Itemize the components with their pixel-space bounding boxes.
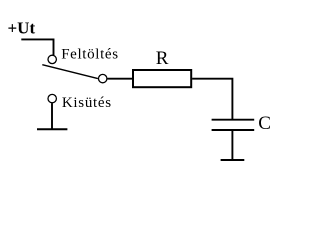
capacitor value label C [258, 113, 271, 134]
svg-text:Feltöltés: Feltöltés [61, 46, 119, 62]
wire from resistor to capacitor top plate [192, 79, 232, 120]
switch contact circle (Feltöltés) [48, 55, 56, 63]
label Feltöltés [61, 46, 119, 62]
wire from +Ut to Feltöltés contact [21, 39, 53, 55]
wire from pole to resistor [107, 78, 132, 80]
label Kisütés [62, 95, 112, 111]
resistor R body [133, 70, 191, 87]
svg-text:C: C [258, 113, 271, 134]
capacitor C bottom plate [212, 129, 255, 131]
ground bar under capacitor [221, 159, 245, 161]
switch contact circle (Kisütés) [48, 94, 56, 102]
switch arm (wiper) [42, 65, 98, 79]
ground bar under Kisütés [37, 128, 67, 130]
svg-text:Kisütés: Kisütés [62, 95, 112, 111]
wire from Kisütés contact down to ground [51, 103, 53, 129]
supply label +Ut [8, 19, 36, 38]
wire from capacitor bottom plate down [231, 130, 233, 160]
svg-text:R: R [156, 48, 169, 69]
switch pole circle (common) [99, 74, 107, 82]
capacitor C top plate [212, 119, 255, 121]
resistor value label R [156, 48, 169, 69]
svg-text:+Ut: +Ut [8, 19, 36, 38]
